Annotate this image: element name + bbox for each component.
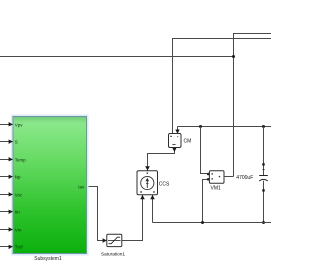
current measurement CM — [169, 134, 192, 148]
input port 7 Vm with wire — [0, 227, 22, 232]
input port 5 Voc with wire — [0, 192, 23, 197]
svg-text:Voc: Voc — [15, 192, 23, 197]
wire: positive rail down to VM1 plus port — [201, 127, 208, 174]
voltage measurement VM1 — [207, 171, 224, 192]
svg-text:CCS: CCS — [159, 181, 170, 187]
svg-text:Subsystem1: Subsystem1 — [34, 256, 62, 262]
node: junction negative rail / VM1 minus — [201, 221, 204, 224]
capacitor C 4700uF top lead — [262, 127, 264, 176]
saturation block Saturation1 — [101, 234, 125, 256]
node: junction positive rail / capacitor top — [262, 125, 265, 128]
input port 6 Im with wire — [0, 209, 20, 214]
wire: CM top-right stub to positive rail — [175, 127, 179, 134]
wire: CM current signal up and exit right (net Imeas) — [173, 39, 272, 134]
wire: negative rail bus — [153, 222, 272, 224]
wire: VM1 minus port to negative rail — [203, 180, 208, 223]
svg-text:Vpv: Vpv — [15, 122, 24, 127]
input port 4 Np with wire — [0, 174, 21, 179]
node: junction of voltage signal branch — [232, 55, 235, 58]
input port 3 Temp with wire — [0, 157, 26, 162]
svg-text:Np: Np — [15, 174, 21, 179]
wire: CM bottom to CCS top — [145, 148, 176, 171]
svg-text:CM: CM — [184, 139, 192, 145]
input port 1 Vpv with wire — [0, 122, 23, 127]
svg-text:Iav: Iav — [78, 185, 85, 190]
controlled current source CCS — [137, 171, 170, 195]
capacitor C bottom lead — [262, 181, 264, 223]
wire: voltage feedback branch to left edge (net Vmeas) — [0, 56, 234, 58]
svg-text:4700uF: 4700uF — [236, 175, 253, 181]
svg-text:Vm: Vm — [15, 227, 22, 232]
svg-text:Temp: Temp — [15, 157, 27, 162]
svg-text:Tref: Tref — [15, 244, 24, 249]
wire: Subsystem1 output Iav to Saturation1 input — [87, 187, 107, 243]
svg-text:S: S — [15, 139, 18, 144]
node: junction negative rail / capacitor bottom — [262, 221, 265, 224]
wire: VM1 v output to riser — [224, 176, 234, 178]
input port 8 Tref with wire — [0, 244, 23, 249]
capacitor C plates and value 4700uF — [236, 175, 267, 181]
svg-text:Saturation1: Saturation1 — [101, 252, 125, 257]
svg-text:Im: Im — [15, 209, 20, 214]
wire: positive rail bus to right edge — [178, 126, 272, 128]
svg-text:VM1: VM1 — [211, 185, 222, 191]
node: junction positive rail / VM1 plus — [199, 125, 202, 128]
subsystem block Subsystem1 — [12, 116, 88, 263]
input port 2 S with wire — [0, 139, 18, 144]
wire: CCS bottom-right port down to negative rail — [150, 195, 155, 223]
wire: saturation output up into CCS bottom-left port — [122, 195, 145, 241]
wire: VM1 voltage signal vertical riser and exit right (net Vmeas) — [234, 34, 272, 177]
